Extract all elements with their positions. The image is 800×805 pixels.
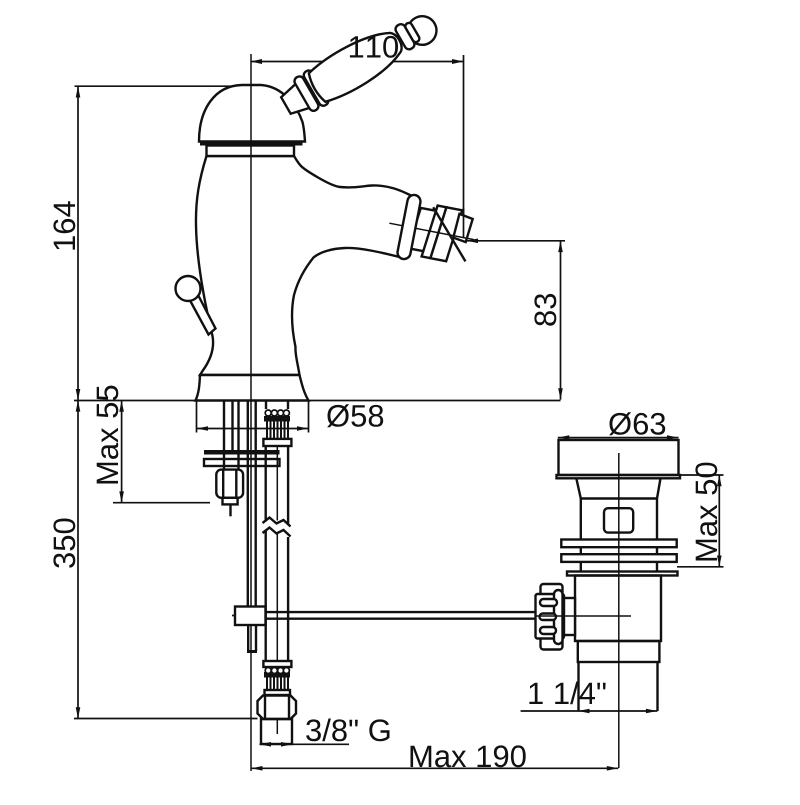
dimension O63: [558, 435, 679, 440]
label Ø58: [327, 404, 383, 427]
lift rod lower end: [247, 625, 249, 651]
dimension 350 line: [74, 400, 258, 718]
dimension O58: [197, 401, 309, 433]
side lever stem: [190, 293, 216, 335]
spout aerator group: [383, 191, 480, 271]
pipe stub below nut: [261, 719, 292, 744]
handle group: [276, 3, 444, 124]
label 110: [350, 36, 398, 58]
label 164: [53, 201, 75, 249]
hose tube: [265, 446, 267, 520]
bonnet ring: [207, 146, 295, 157]
knurled knob: [541, 584, 563, 650]
drain barrel: [580, 499, 582, 540]
110 extension line over aerator: [463, 208, 465, 238]
label 1 1/4": [529, 682, 605, 705]
drain vertical centerline: [618, 453, 620, 768]
label Max 55: [97, 386, 119, 484]
side lever knob: [176, 276, 201, 301]
faucet dome cap: [199, 85, 305, 142]
3/8 G hex nut: [258, 696, 297, 720]
plate 1: [561, 540, 676, 548]
thin washer: [567, 572, 678, 576]
hose break symbol: [263, 518, 291, 527]
hose lower crimp: [263, 661, 291, 695]
metal washer: [204, 459, 280, 466]
braided hose upper crimp: [263, 401, 291, 447]
label 350: [53, 519, 75, 568]
plate 2: [561, 554, 676, 562]
flange cone: [576, 478, 660, 498]
faucet base: [196, 375, 309, 401]
dimension 83: [467, 239, 566, 400]
label 3/8" G: [306, 719, 389, 742]
dimension Max 50: [677, 475, 724, 567]
rod connector on drain: [563, 598, 576, 635]
faucet centerline: [250, 54, 252, 771]
horizontal pop-up rod: [266, 611, 536, 613]
gasket washer (dark): [204, 450, 280, 455]
drain horizontal centerline: [536, 615, 632, 617]
label Max 190: [411, 745, 526, 767]
cap rim band: [200, 141, 303, 146]
dimension 164 line: [75, 86, 241, 400]
label Max 50: [695, 463, 717, 561]
threaded rod below nut: [229, 504, 231, 516]
drain flange: [559, 440, 679, 475]
dimension Max 190: [251, 766, 618, 771]
dimension Max 55: [113, 401, 210, 503]
label Ø63: [609, 412, 665, 435]
below deck: shank tube: [223, 401, 225, 470]
mounting surface line: [74, 400, 561, 402]
clamp block on lift rod: [235, 607, 266, 626]
square hole: [604, 508, 633, 532]
tailpipe: [577, 662, 579, 711]
mounting nut: [216, 470, 243, 498]
lower drain body: [575, 576, 661, 642]
faucet body outline: [196, 156, 411, 375]
lift rod: [247, 401, 249, 607]
dimension 1 1/4: [521, 709, 658, 714]
dimension 110 line: [251, 55, 464, 238]
dimension 3/8 G: [260, 742, 350, 747]
label 83: [534, 294, 556, 326]
